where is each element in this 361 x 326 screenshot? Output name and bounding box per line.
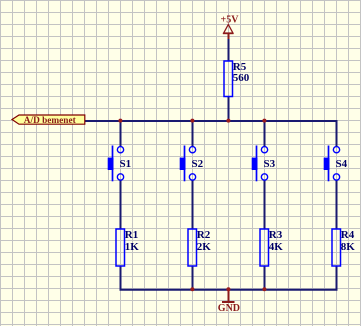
power +5V bbox=[221, 15, 240, 40]
wire: S4 to R4 bbox=[336, 181, 338, 230]
wire: R3 to bottom bus bbox=[264, 266, 266, 290]
svg-text:R2: R2 bbox=[197, 229, 211, 241]
svg-text:A/D bemenet: A/D bemenet bbox=[24, 116, 77, 126]
svg-text:R5: R5 bbox=[233, 61, 247, 73]
wire: +5V stem to R5 bbox=[228, 38, 230, 61]
wire: top bus to S1 bbox=[120, 121, 122, 147]
switch S2 bbox=[180, 146, 204, 182]
svg-text:S3: S3 bbox=[264, 158, 276, 170]
resistor R1 bbox=[116, 229, 139, 266]
svg-text:4K: 4K bbox=[269, 241, 284, 253]
junction node at S1 column / top bus bbox=[118, 119, 122, 123]
resistor R2 bbox=[188, 229, 211, 266]
junction node at R3 / bottom bus bbox=[262, 287, 266, 291]
resistor R5 bbox=[224, 61, 250, 97]
wire: top bus from port to S4 corner bbox=[85, 121, 337, 146]
junction node at S3 column / top bus bbox=[262, 119, 266, 123]
junction node at GND / bottom bus bbox=[226, 287, 230, 291]
resistor R3 bbox=[260, 229, 283, 266]
wire: top bus to S2 bbox=[192, 121, 194, 147]
svg-text:R3: R3 bbox=[269, 229, 283, 241]
svg-text:S2: S2 bbox=[192, 158, 204, 170]
wire: R5 to top bus bbox=[228, 97, 230, 122]
wire: S2 to R2 bbox=[192, 181, 194, 230]
resistor R4 bbox=[332, 229, 355, 266]
wire: top bus to S3 bbox=[264, 121, 266, 147]
port A/D bemenet bbox=[12, 115, 85, 126]
switch S4 bbox=[324, 146, 348, 182]
junction node at R2 / bottom bus bbox=[190, 287, 194, 291]
svg-text:R4: R4 bbox=[341, 229, 355, 241]
switch S3 bbox=[252, 146, 276, 182]
junction node at R5 / top bus bbox=[226, 119, 230, 123]
wire: S1 to R1 bbox=[120, 181, 122, 230]
svg-text:8K: 8K bbox=[341, 241, 356, 253]
svg-text:GND: GND bbox=[218, 303, 240, 314]
switch S1 bbox=[108, 146, 131, 182]
ground GND bbox=[218, 290, 240, 315]
svg-text:1K: 1K bbox=[125, 241, 140, 253]
svg-text:560: 560 bbox=[233, 72, 250, 84]
svg-text:R1: R1 bbox=[125, 229, 138, 241]
junction node at S2 column / top bus bbox=[190, 119, 194, 123]
svg-text:+5V: +5V bbox=[221, 15, 240, 26]
svg-text:S4: S4 bbox=[336, 158, 348, 170]
wire: bottom bus from R1 to R4 bbox=[121, 266, 337, 290]
wire: S3 to R3 bbox=[264, 181, 266, 230]
svg-text:S1: S1 bbox=[120, 158, 132, 170]
svg-text:2K: 2K bbox=[197, 241, 212, 253]
wire: R2 to bottom bus bbox=[192, 266, 194, 290]
